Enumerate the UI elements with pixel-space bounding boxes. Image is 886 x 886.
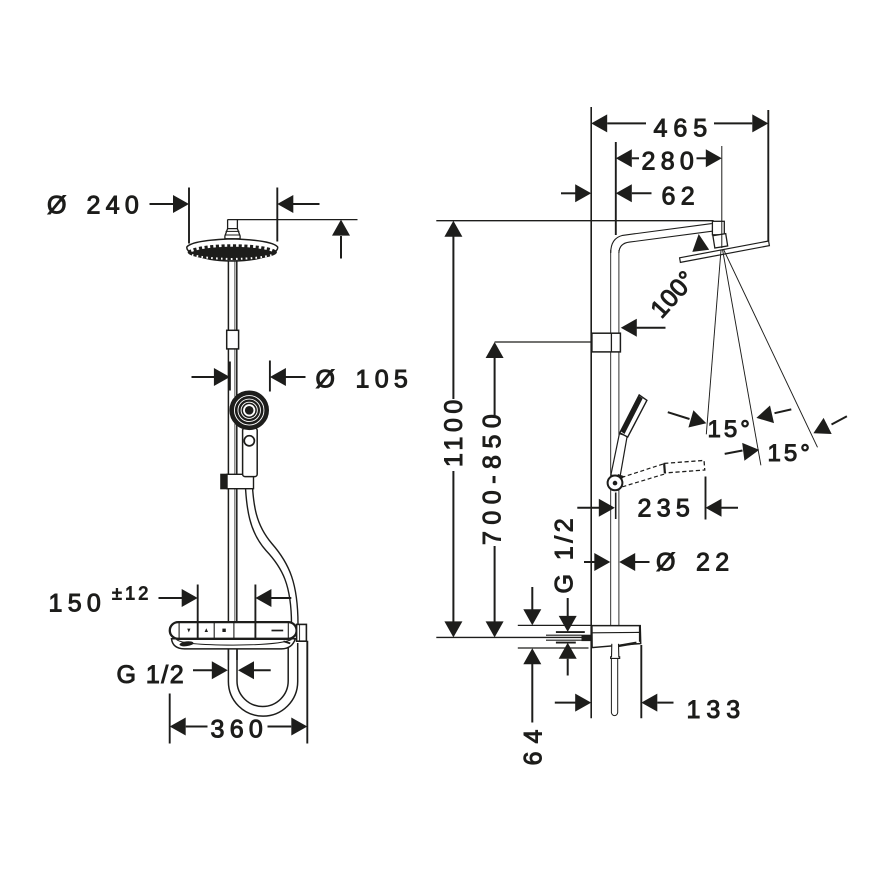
- extension line 133 right: [640, 645, 642, 718]
- thermostat buttons dividers: [178, 623, 180, 639]
- wire shower rail pipe (vertical): [227, 261, 229, 622]
- extension lines Ø 105: [229, 362, 231, 391]
- svg-text:465: 465: [654, 115, 714, 143]
- dimension G 1/2 arrows (side): [567, 598, 569, 616]
- wire G1/2 outlet pipe below thermostat: [227, 649, 229, 660]
- extension lines Ø 240: [188, 188, 190, 244]
- dimension 700-850 (vertical): [486, 342, 504, 358]
- reference up-arrow at head top: [332, 220, 350, 236]
- shower arm (side view): [611, 224, 712, 253]
- wire top reference line (head top level): [228, 219, 358, 221]
- overhead shower head Ø240 (front): [187, 239, 278, 261]
- head mount joint (side view): [712, 221, 724, 235]
- thermostat (side view): [592, 626, 641, 648]
- dimension G 1/2 leader and arrows (front): [193, 669, 213, 671]
- dimension 1100 (vertical): [444, 221, 462, 237]
- svg-text:133: 133: [687, 696, 747, 724]
- leader arrow at bracket: [637, 327, 666, 329]
- svg-text:62: 62: [662, 183, 700, 211]
- pivot circle: [608, 476, 623, 491]
- overhead shower arm connector: [225, 220, 240, 239]
- hand shower holder bracket: [221, 474, 227, 488]
- angle 15deg first arrows: [668, 412, 690, 419]
- svg-text:15°: 15°: [768, 440, 813, 467]
- spray cone lines: [706, 250, 721, 434]
- hand shower pivot holder (side view): [615, 493, 617, 520]
- dimension 150 leader and arrows: [159, 597, 183, 599]
- thermostat hose U-loop below: [228, 643, 297, 716]
- overhead shower head plate (side, tilted): [680, 241, 770, 262]
- top reference line (side): [436, 220, 713, 222]
- extension lines 280/62: [615, 142, 617, 235]
- dimension Ø 105 leader and arrows: [192, 376, 215, 378]
- dimension Ø 240 leader and arrows: [150, 203, 175, 205]
- wire rail pipe (side view): [610, 250, 612, 626]
- wire wall line (side view): [590, 107, 592, 718]
- thermostat bar ShowerTablet (front): [170, 622, 297, 639]
- svg-text:64: 64: [520, 722, 548, 766]
- svg-text:Ø: Ø: [656, 549, 677, 577]
- hand shower handle (front): [243, 428, 258, 477]
- extension line 235 right: [705, 477, 707, 520]
- angle 15deg second arrows: [725, 451, 743, 454]
- hand shower head (side view, in holder): [620, 395, 647, 437]
- dimension 133 line and arrows: [555, 702, 576, 704]
- reference line at slider bracket height: [495, 341, 591, 343]
- hanging hose end (side): [611, 658, 617, 715]
- svg-text:280: 280: [642, 148, 700, 176]
- wall supply pipe into thermostat (side): [546, 634, 582, 636]
- reference lines 64: [518, 624, 591, 626]
- svg-text:100°: 100°: [645, 266, 701, 324]
- dimension 360 line and arrows: [170, 718, 186, 736]
- dimension 280 line and arrows: [616, 149, 632, 167]
- dimension 465 line and arrows: [591, 114, 607, 132]
- svg-text:1100: 1100: [440, 395, 468, 467]
- svg-text:G 1/2: G 1/2: [117, 661, 186, 689]
- bottom reference line (side): [436, 636, 581, 638]
- thermostat temperature knob shadow (dark oval): [179, 641, 193, 647]
- hand shower head Ø105 concentric rings (front): [230, 391, 268, 429]
- thermostat button icons: [187, 629, 190, 633]
- extension line 465 right: [767, 110, 769, 241]
- thermostat bottom shell (front): [172, 639, 296, 649]
- angle label 100deg (rotated): [645, 266, 701, 324]
- shower head spray nozzles (white hatch): [191, 245, 274, 250]
- svg-text:240: 240: [87, 192, 145, 220]
- svg-text:360: 360: [211, 716, 269, 744]
- dimension 235 line and arrows: [577, 507, 599, 509]
- svg-text:22: 22: [696, 549, 734, 577]
- svg-text:±12: ±12: [112, 584, 152, 604]
- thermostat wall fitting (front right): [297, 624, 307, 641]
- dimension 64 (vertical): [531, 587, 533, 610]
- svg-text:Ø: Ø: [47, 192, 68, 220]
- hand shower rotated position (dashed): [622, 464, 665, 478]
- hand shower hose (upper S-curve): [245, 468, 292, 624]
- hand shower handle (side view): [611, 434, 627, 478]
- svg-text:G 1/2: G 1/2: [551, 515, 579, 594]
- svg-text:105: 105: [356, 366, 414, 394]
- svg-text:700-850: 700-850: [479, 408, 507, 545]
- hose outlet below thermostat (side): [611, 644, 620, 659]
- spray direction up-arrow at head: [690, 233, 709, 252]
- dimension G 1/2 label (side, rotated): [551, 515, 579, 594]
- rail wall bracket (side view): [592, 333, 621, 352]
- hand shower select button: [244, 436, 254, 446]
- extension lines 360: [169, 694, 171, 744]
- svg-text:235: 235: [638, 495, 696, 523]
- svg-text:15°: 15°: [708, 416, 753, 443]
- rail joint sleeve: [227, 330, 239, 349]
- svg-text:150: 150: [49, 590, 107, 618]
- dimension Ø 22 arrows: [584, 561, 595, 563]
- G1/2 wall stub (black): [582, 635, 591, 641]
- dimension 62 arrows: [561, 192, 576, 194]
- extension lines 150: [197, 585, 199, 639]
- svg-text:Ø: Ø: [316, 366, 337, 394]
